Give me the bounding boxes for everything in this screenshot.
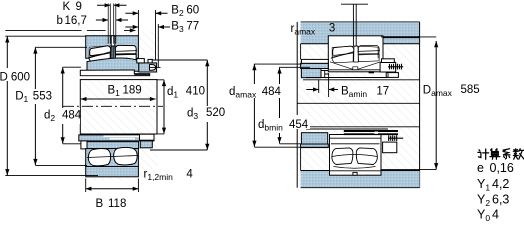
- svg-text:16,7: 16,7: [65, 15, 87, 27]
- svg-text:4: 4: [492, 208, 499, 222]
- svg-text:D: D: [0, 72, 8, 84]
- svg-text:K: K: [63, 1, 71, 13]
- svg-text:B: B: [96, 198, 104, 210]
- svg-text:9: 9: [76, 1, 82, 13]
- svg-text:17: 17: [376, 86, 389, 98]
- svg-text:585: 585: [461, 84, 480, 96]
- svg-text:189: 189: [123, 85, 142, 97]
- svg-text:e: e: [477, 161, 484, 175]
- svg-text:484: 484: [62, 110, 82, 122]
- svg-text:3: 3: [329, 23, 335, 35]
- svg-text:b: b: [57, 15, 63, 27]
- svg-text:60: 60: [186, 4, 199, 16]
- svg-text:4,2: 4,2: [492, 177, 509, 191]
- svg-text:600: 600: [11, 72, 30, 84]
- svg-text:6,3: 6,3: [492, 193, 509, 207]
- svg-text:77: 77: [186, 20, 199, 32]
- svg-text:4: 4: [186, 169, 193, 181]
- svg-text:454: 454: [289, 119, 309, 131]
- svg-text:410: 410: [186, 86, 205, 98]
- svg-text:520: 520: [206, 107, 225, 119]
- svg-text:118: 118: [108, 198, 126, 210]
- svg-text:484: 484: [262, 86, 282, 98]
- svg-text:0,16: 0,16: [490, 161, 514, 175]
- svg-text:553: 553: [33, 91, 52, 103]
